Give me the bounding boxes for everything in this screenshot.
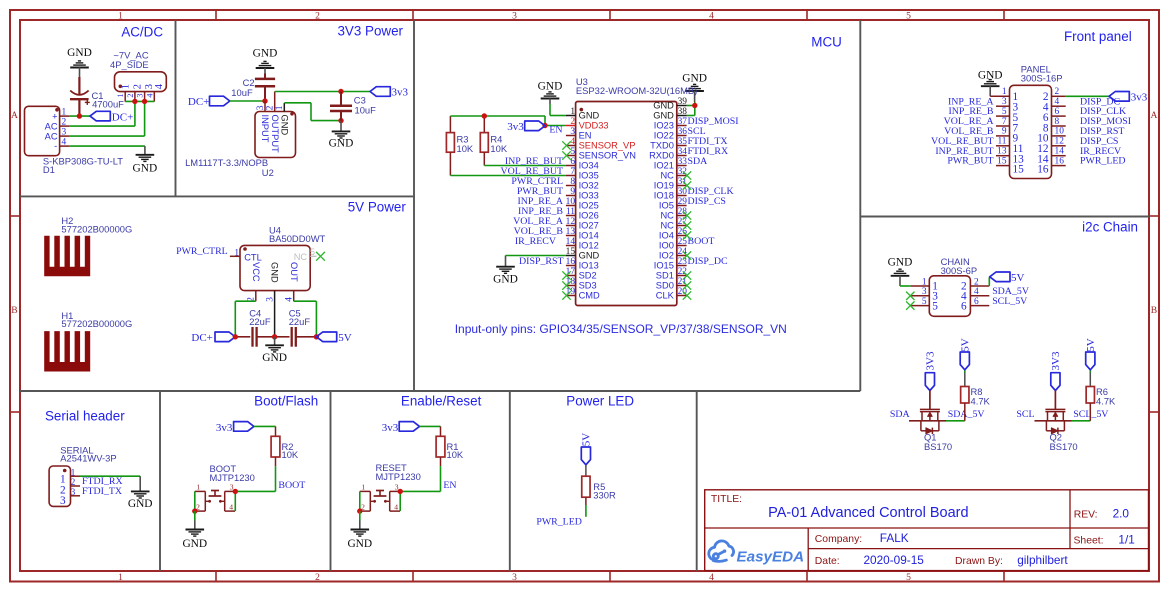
svg-text:IO23: IO23 [654,121,674,131]
svg-text:4: 4 [394,503,398,512]
capacitor C5 [275,327,317,347]
junction C1/D1/DC+ [77,113,82,118]
junction U2 pin3 C2 [262,98,267,103]
capacitor C4 [235,327,274,347]
svg-text:IO0: IO0 [659,241,674,251]
svg-text:SCL_5V: SCL_5V [1073,409,1109,420]
EasyEDA logo [709,541,804,566]
svg-text:U2: U2 [262,167,274,178]
no-connect X marks MCU left pins [562,141,570,299]
wire R3 to MCU pin7 VOL_RE_BUT [450,175,566,177]
svg-text:34: 34 [678,147,688,157]
wire BOOT switch pins 1-2 short [194,491,196,511]
svg-text:13: 13 [566,227,576,237]
svg-text:DC+: DC+ [188,96,209,108]
resistor R4 [480,116,488,166]
svg-text:DISP_DC: DISP_DC [688,256,728,267]
svg-text:VDD33: VDD33 [579,121,609,131]
title block dividers [705,490,1149,571]
svg-text:DISP_RST: DISP_RST [519,256,563,267]
junction BOOT pin3 [233,489,238,494]
svg-text:B: B [1151,305,1157,316]
svg-text:1: 1 [275,105,285,110]
svg-text:1: 1 [119,84,131,89]
wire D1 pin3 to connector pin3 [70,101,145,136]
svg-text:10uF: 10uF [355,104,377,115]
wire U4 OUT to 5V node [294,301,317,337]
svg-text:31: 31 [678,177,688,187]
wire GND to MCU pin1 [550,104,566,116]
svg-text:3V3 Power: 3V3 Power [337,24,403,39]
svg-text:GND: GND [347,538,372,550]
svg-text:EasyEDA: EasyEDA [737,549,805,566]
resistor R8 [961,370,969,421]
svg-text:SENSOR_VN: SENSOR_VN [579,151,636,161]
label CHAIN 300S-6P [941,256,977,276]
MCU U3 ESP32-WROOM-32U [566,101,687,306]
pin numbers U2 3 2 1 [256,105,285,110]
net flag DC+ [90,111,133,123]
svg-text:Power LED: Power LED [566,394,634,409]
net flag DC+ 3V3 section [188,96,230,108]
wire 3v3 to R1 [420,426,441,436]
svg-text:577202B00000G: 577202B00000G [61,318,132,329]
wire D1 pin1 to DC+ and C1 [70,115,90,117]
svg-text:OUT: OUT [289,262,299,282]
svg-text:GND: GND [653,101,674,111]
svg-text:21: 21 [678,277,688,287]
svg-text:GND: GND [270,262,280,283]
section divider Power LED right edge [696,391,698,571]
svg-text:4P_SIDE: 4P_SIDE [110,59,149,70]
svg-text:FALK: FALK [880,531,909,545]
svg-text:36: 36 [678,127,688,137]
svg-text:5V: 5V [959,338,971,352]
no-connect X on U4 pin5 [316,252,325,261]
Drawn By label and value [955,553,1068,567]
svg-text:5V: 5V [581,433,593,447]
svg-text:1: 1 [234,248,239,258]
svg-text:4: 4 [709,572,714,583]
label C1 4700uF [92,90,125,110]
svg-text:Serial header: Serial header [45,409,125,424]
ground GND reset [347,530,372,550]
svg-text:10K: 10K [447,449,464,460]
wire connector pins to D1 [125,100,154,102]
svg-text:14: 14 [1055,147,1065,157]
svg-text:10K: 10K [457,143,474,154]
svg-text:7: 7 [1002,117,1007,127]
svg-text:3V3: 3V3 [1050,351,1062,370]
label C5 22uF [289,308,311,327]
svg-text:2: 2 [62,118,67,128]
svg-text:5: 5 [906,572,911,583]
connector SERIAL A2541WV-3P [49,466,80,506]
svg-text:5V Power: 5V Power [348,199,407,214]
svg-text:22uF: 22uF [249,316,271,327]
label U3 ESP32-WROOM-32U(16MB) [576,76,697,96]
svg-text:4: 4 [153,83,165,89]
ground GND MCU left [538,81,563,105]
ground GND i2c chain [888,256,913,286]
svg-text:3: 3 [512,572,517,583]
pin names connector 1-4 inside [119,83,165,89]
svg-text:11: 11 [566,207,575,217]
ground GND below C3 [329,121,354,150]
svg-text:PWR_LED: PWR_LED [1080,156,1126,167]
svg-text:IO22: IO22 [654,131,674,141]
svg-text:4: 4 [570,137,575,147]
heatsink H2 [44,236,90,277]
svg-text:29: 29 [678,197,688,207]
bridge rectifier D1 [25,106,70,155]
net flag 5V output [316,332,351,344]
label PANEL 300S-16P [1021,64,1063,84]
MCU left net labels [500,156,563,267]
svg-text:GND: GND [262,352,287,364]
svg-text:1/1: 1/1 [1118,533,1134,547]
svg-text:SD1: SD1 [656,271,674,281]
svg-text:SDA: SDA [890,409,911,420]
svg-text:PWR_CTRL: PWR_CTRL [176,246,228,257]
svg-text:10: 10 [566,197,576,207]
svg-text:12: 12 [1055,137,1065,147]
svg-text:2: 2 [974,277,979,287]
resistor R1 [436,436,445,466]
pin number U4 5 unconnected [310,247,317,257]
svg-text:3: 3 [265,297,275,302]
svg-text:5: 5 [906,11,911,22]
svg-text:3: 3 [570,127,575,137]
transistor Q1 BS170 [909,391,946,435]
svg-text:IO21: IO21 [654,161,674,171]
REV label and value [1074,506,1130,520]
svg-text:3v3: 3v3 [216,422,233,434]
frame row ticks [10,216,1159,412]
svg-text:300S-6P: 300S-6P [941,265,977,276]
wire PANEL pin2 to 3v3 [1066,95,1109,97]
connector PANEL 300S-16P [990,85,1065,178]
svg-text:1: 1 [570,107,575,117]
svg-text:EN: EN [443,480,456,491]
svg-text:10K: 10K [490,143,507,154]
svg-text:5V: 5V [1085,338,1097,352]
svg-text:32: 32 [678,167,688,177]
junction GND C4 C5 [272,334,277,339]
section divider Serial | Boot/Flash [159,391,161,571]
section divider MCU right edge [859,20,861,391]
svg-text:FTDI_TX: FTDI_TX [82,486,122,497]
svg-text:Enable/Reset: Enable/Reset [401,394,482,409]
section divider Boot/Flash | Enable/Reset [330,391,332,571]
svg-text:330R: 330R [593,489,616,500]
label R8 4.7K [971,386,991,407]
svg-text:6: 6 [1055,107,1060,117]
svg-text:1: 1 [196,483,200,492]
svg-text:NC: NC [660,171,674,181]
svg-text:3: 3 [60,495,66,507]
svg-text:Front panel: Front panel [1064,29,1132,44]
svg-text:12: 12 [566,217,576,227]
net flag 3v3 output [370,87,409,99]
svg-text:TXD0: TXD0 [650,141,674,151]
MCU right net labels [688,116,739,267]
svg-text:24: 24 [678,247,688,257]
svg-text:16: 16 [1055,156,1065,166]
junction C3 top [338,89,343,94]
svg-text:4: 4 [709,11,714,22]
svg-text:26: 26 [678,227,688,237]
svg-text:4: 4 [1055,97,1060,107]
svg-text:4: 4 [145,94,154,98]
svg-text:GND: GND [329,138,354,150]
svg-text:IO35: IO35 [579,171,599,181]
MCU right pin numbers [678,97,688,297]
svg-text:2: 2 [131,84,143,89]
label C4 22uF [249,308,271,327]
svg-text:IO12: IO12 [579,241,599,251]
pin numbers U4 2 3 4 [247,297,295,302]
wire GND to MCU pins 39 38 [687,102,695,116]
svg-text:GND: GND [128,498,153,510]
svg-text:VCC: VCC [251,262,261,282]
section divider Enable/Reset | Power LED [509,391,511,571]
frame column labels [118,11,911,583]
junction RESET pin2 [357,508,362,513]
ground GND top of AC/DC [67,47,92,78]
wire U2 output to 3v3 flag [275,91,370,93]
wire BOOT switch pins 3-4 short [234,491,236,511]
svg-text:IO15: IO15 [654,261,674,271]
svg-text:A: A [11,110,18,121]
regulator U4 BA50DD0WT [230,245,310,336]
wire RESET pin2 to ground [359,511,361,529]
junction connector pin2 [132,99,137,104]
wire BOOT pin2 to ground [194,511,196,529]
svg-text:SD0: SD0 [656,281,674,291]
svg-text:GND: GND [538,81,563,93]
svg-text:AC: AC [45,121,58,131]
svg-text:BS170: BS170 [1050,441,1078,452]
wire RESET switch pins 1-2 short [359,491,361,511]
svg-text:14: 14 [566,237,576,247]
svg-text:A: A [1151,110,1158,121]
svg-text:27: 27 [678,217,688,227]
svg-text:IO4: IO4 [659,231,674,241]
svg-text:3: 3 [512,11,517,22]
wire 3v3 to R2 [254,426,276,436]
pin numbers RESET switch [361,483,399,512]
junction C3 bottom [338,118,343,123]
regulator U2 LM1117T-3.3 [255,92,296,158]
svg-text:BA50DD0WT: BA50DD0WT [269,233,326,244]
svg-text:BOOT: BOOT [688,236,715,247]
svg-text:BS170: BS170 [924,441,952,452]
pin numbers BOOT switch [196,483,234,512]
svg-text:OUTPUT: OUTPUT [270,115,280,154]
label C2 10uF [231,77,254,98]
svg-text:7: 7 [570,167,575,177]
svg-text:3: 3 [62,128,67,138]
resistor R2 [271,436,280,466]
svg-text:SCL: SCL [1016,409,1034,420]
svg-text:22uF: 22uF [289,316,311,327]
label ~7V_AC 4P_SIDE [110,50,149,71]
svg-text:GND: GND [133,163,158,175]
svg-text:PWR_BUT: PWR_BUT [947,156,993,167]
svg-text:GND: GND [978,70,1003,82]
svg-text:1: 1 [922,277,927,287]
svg-text:GND: GND [280,115,290,136]
svg-text:33: 33 [678,157,688,167]
wire 3v3 pullup rail to VDD33 [450,116,566,126]
svg-text:4.7K: 4.7K [971,395,991,406]
svg-text:3: 3 [256,105,266,110]
svg-text:EN: EN [579,131,592,141]
net flag 3v3 boot [216,422,254,434]
svg-text:Sheet:: Sheet: [1074,536,1104,547]
svg-text:REV:: REV: [1074,509,1098,520]
wire SERIAL pin1 to ground [80,476,140,491]
svg-text:IR_RECV: IR_RECV [515,236,557,247]
svg-text:2: 2 [315,572,320,583]
junction connector pin3 [142,99,147,104]
svg-text:SDA: SDA [688,156,709,167]
pin names CHAIN inside [932,281,967,313]
label R5 330R [593,481,616,500]
wire Q2 source to R6 SCL_5V [1072,420,1091,422]
resistor R6 [1086,370,1094,421]
ground GND front panel [978,70,1003,97]
wire RESET switch pins 3-4 short [399,491,401,511]
svg-text:4: 4 [62,138,67,148]
svg-text:6: 6 [974,297,979,307]
title block outline [705,490,1149,571]
svg-text:2.0: 2.0 [1113,506,1130,520]
ground GND boot [182,530,207,550]
svg-text:B: B [11,305,17,316]
svg-text:+: + [52,111,57,121]
svg-text:25: 25 [678,237,688,247]
svg-text:MJTP1230: MJTP1230 [376,471,421,482]
section divider top row bottom (5V Power top) [20,195,414,197]
svg-text:30: 30 [678,187,688,197]
svg-text:GND: GND [579,111,600,121]
svg-text:TITLE:: TITLE: [711,494,742,505]
svg-text:3v3: 3v3 [392,87,409,99]
svg-text:1: 1 [118,572,123,583]
svg-text:10uF: 10uF [231,87,253,98]
svg-text:Company:: Company: [815,534,862,545]
svg-text:NC: NC [660,221,674,231]
svg-text:15: 15 [997,156,1007,166]
svg-text:5: 5 [570,147,575,157]
switch RESET MJTP1230 [360,491,400,512]
svg-text:GND: GND [653,111,674,121]
svg-text:PA-01 Advanced Control Board: PA-01 Advanced Control Board [768,505,968,521]
label R3 10K [457,134,474,154]
svg-text:ESP32-WROOM-32U(16MB): ESP32-WROOM-32U(16MB) [576,85,697,96]
svg-text:AC: AC [45,131,58,141]
svg-text:PWR_LED: PWR_LED [536,516,582,527]
svg-text:GND: GND [67,47,92,59]
net labels PANEL right [1080,96,1131,166]
label H2 577202B00000G [61,215,132,234]
ground GND below U4 [262,337,287,364]
label BOOT MJTP1230 [210,463,255,483]
svg-text:5V: 5V [1011,272,1025,284]
svg-text:1: 1 [116,94,125,98]
svg-text:GND: GND [182,538,207,550]
svg-text:1: 1 [71,468,76,478]
section divider Front panel | i2c Chain [860,216,1149,218]
svg-text:4: 4 [974,287,979,297]
frame row labels [11,110,1158,316]
svg-text:39: 39 [678,97,688,107]
no-connect X CHAIN pins 3 5 [906,292,914,310]
capacitor C1 [70,77,90,116]
net labels PANEL left [931,96,994,166]
wire R1 to RESET switch [401,466,441,491]
svg-text:1: 1 [361,483,365,492]
svg-text:3: 3 [71,488,76,498]
svg-text:i2c Chain: i2c Chain [1082,220,1138,235]
svg-text:1: 1 [62,108,67,118]
ground GND bottom of AC/DC [133,146,158,174]
MCU left pin numbers [566,107,576,297]
wire D1 pin2 to connector pin2 [70,101,135,126]
junction 3v3 flag VDD33 [542,123,547,128]
label Q2 BS170 [1050,431,1078,452]
svg-text:13: 13 [997,147,1007,157]
svg-text:gilphilbert: gilphilbert [1017,553,1068,567]
svg-text:RXD0: RXD0 [649,151,674,161]
svg-text:CLK: CLK [656,291,675,301]
svg-text:IO19: IO19 [654,181,674,191]
svg-text:CMD: CMD [579,291,600,301]
svg-text:IO18: IO18 [654,191,674,201]
svg-text:IO5: IO5 [659,201,674,211]
label R1 10K [447,441,464,460]
ground GND MCU right top [682,73,707,103]
wire Q1 source to R8 SDA_5V [946,420,965,422]
svg-text:35: 35 [678,137,688,147]
Sheet label and value [1074,533,1135,547]
label U4 BA50DD0WT [269,225,326,244]
svg-text:IO14: IO14 [579,231,599,241]
label SERIAL A2541WV-3P [60,444,116,463]
svg-text:4700uF: 4700uF [92,99,124,110]
wire GND to CHAIN pin1 [900,285,911,287]
svg-text:3: 3 [136,94,145,98]
svg-text:23: 23 [678,257,688,267]
svg-text:Date:: Date: [815,556,840,567]
ground GND MCU pin15 [493,256,566,286]
ground GND serial [128,491,153,510]
label H1 577202B00000G [61,310,132,329]
capacitor C3 [330,92,352,121]
label C3 10uF [354,95,376,116]
junction RESET pin3 [398,489,403,494]
svg-text:SD3: SD3 [579,281,597,291]
svg-text:GND: GND [253,48,278,60]
wire R4 to MCU pin6 INP_RE_BUT [484,165,566,167]
svg-text:IO33: IO33 [579,191,599,201]
svg-text:9: 9 [1002,127,1007,137]
svg-text:GND: GND [493,274,518,286]
ground GND above C2 [253,48,278,74]
svg-text:1: 1 [1002,87,1007,97]
